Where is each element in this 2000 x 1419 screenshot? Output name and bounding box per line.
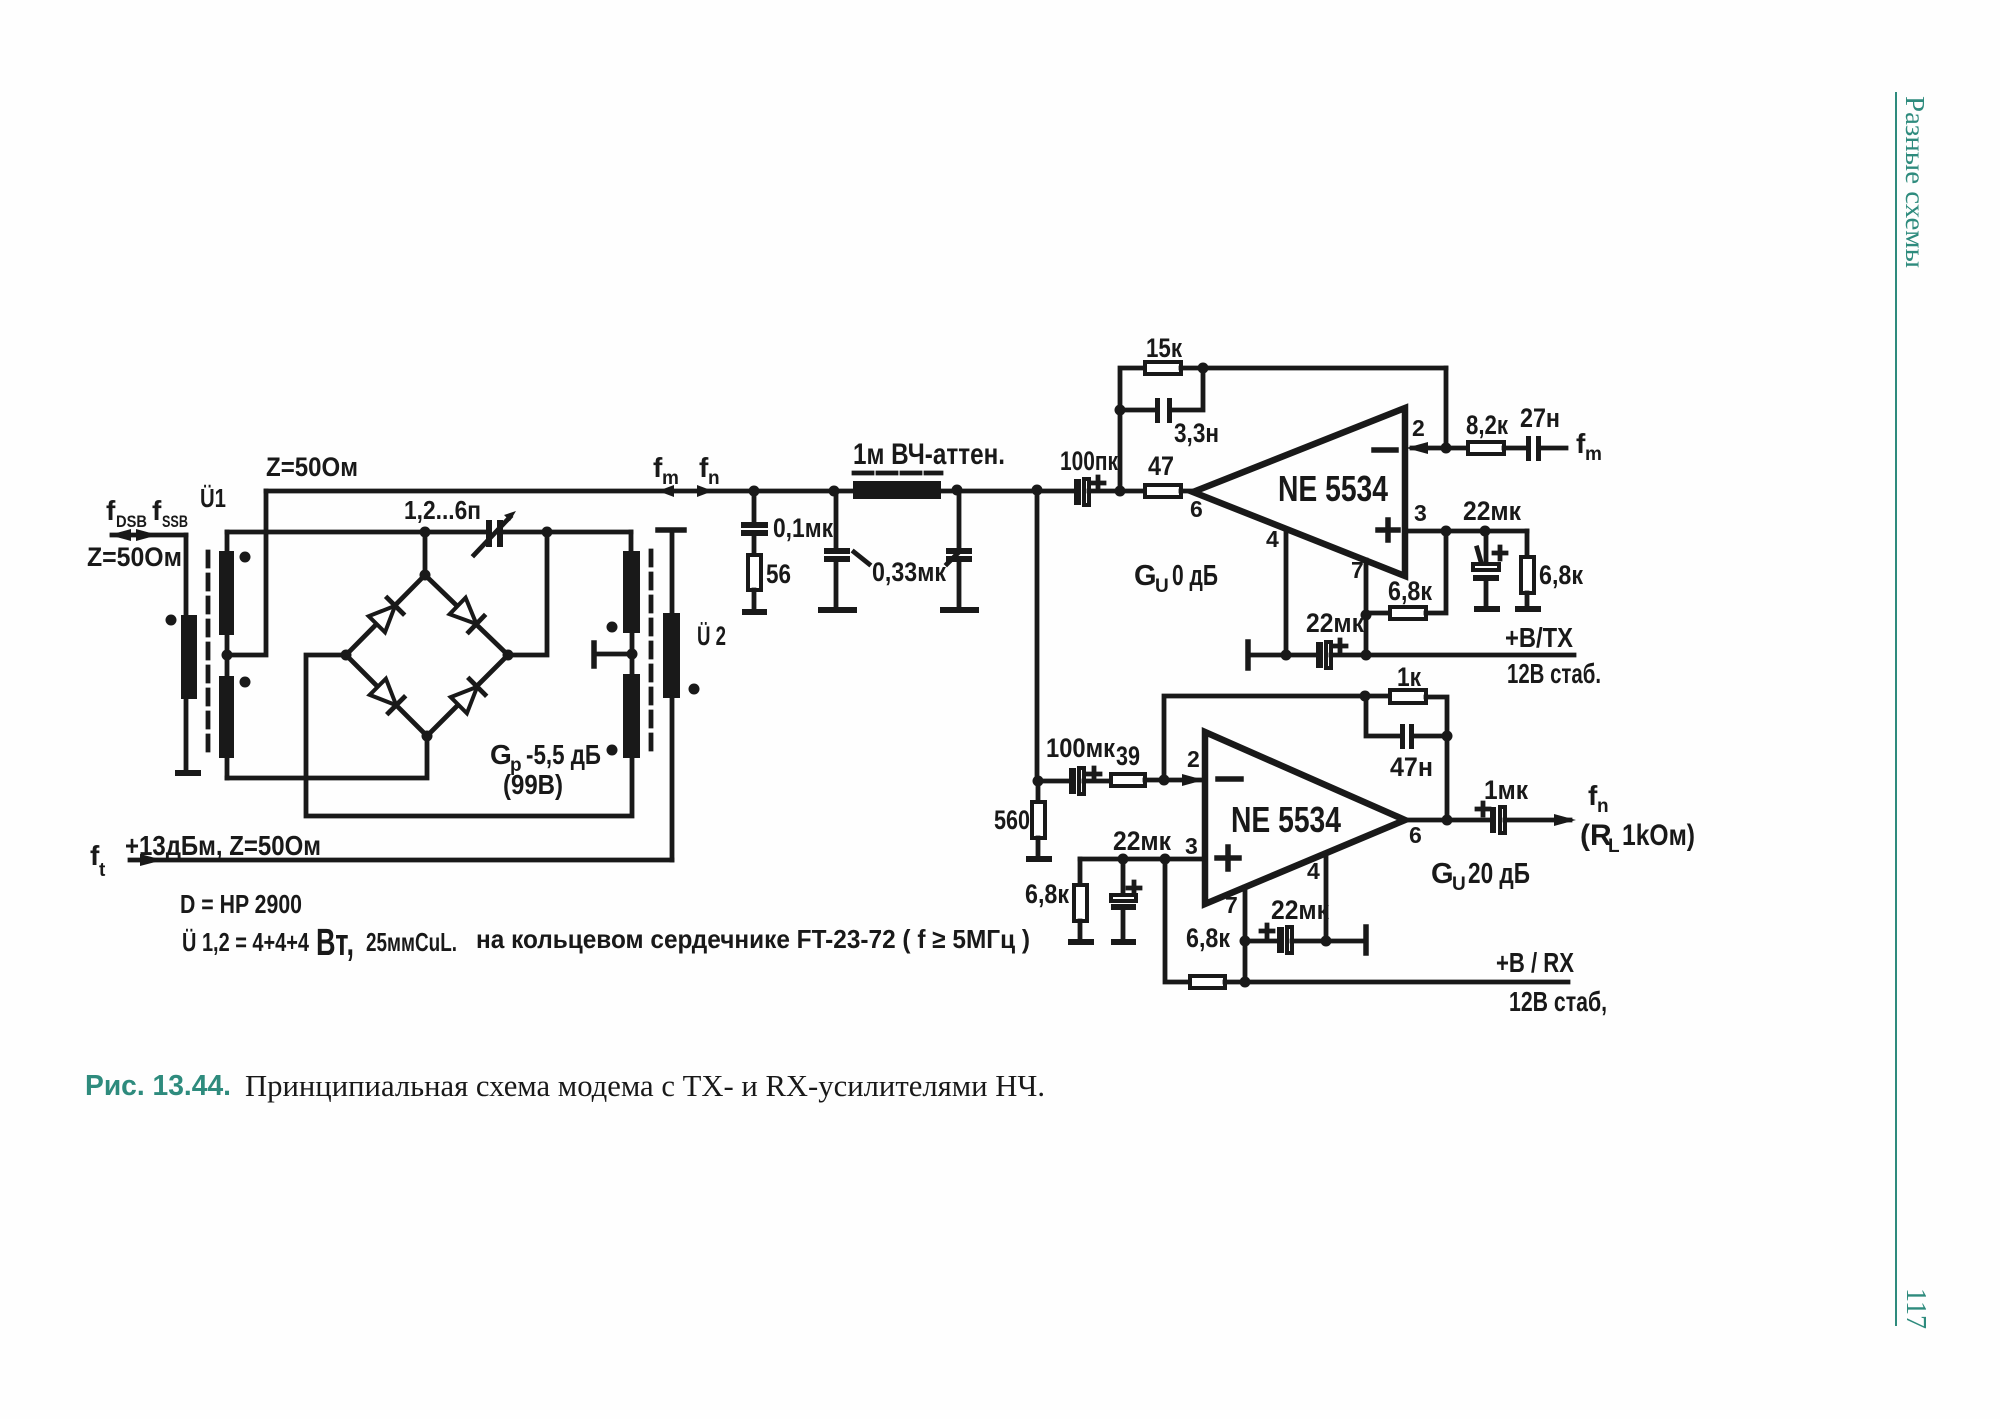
svg-text:Принципиальная схема модема с: Принципиальная схема модема с ТХ- и RХ-у…	[245, 1068, 1045, 1103]
variable capacitor 1,2...6p	[404, 495, 516, 555]
svg-text:NE 5534: NE 5534	[1278, 468, 1388, 509]
svg-text:Вт,: Вт,	[316, 922, 354, 964]
svg-text:U: U	[1452, 874, 1466, 895]
wire pin3 RX	[1080, 833, 1205, 865]
svg-text:f: f	[106, 495, 116, 526]
svg-text:SSB: SSB	[162, 512, 188, 531]
node output fn	[1405, 775, 1695, 857]
note D = HP 2900	[180, 889, 302, 919]
capacitor 0,33mk right	[940, 485, 979, 614]
node ft port	[90, 830, 672, 881]
svg-text:56: 56	[766, 559, 791, 589]
caption Fig 13.44	[85, 1068, 1045, 1103]
note U1,2 winding	[182, 922, 1030, 964]
svg-text:27н: 27н	[1520, 403, 1560, 433]
svg-text:+13дБм, Z=50Ом: +13дБм, Z=50Ом	[125, 830, 321, 861]
wire RX feedback	[1164, 691, 1390, 781]
svg-text:22мк: 22мк	[1113, 826, 1171, 856]
svg-text:Ü 2: Ü 2	[697, 621, 726, 651]
svg-text:6: 6	[1409, 822, 1422, 848]
svg-text:25ммCuL.: 25ммCuL.	[366, 927, 457, 957]
capacitor 47n	[1366, 696, 1447, 782]
svg-text:0,33мк: 0,33мк	[872, 557, 946, 587]
resistor 8,2k	[1466, 410, 1526, 454]
svg-text:3,3н: 3,3н	[1174, 418, 1219, 448]
svg-text:47н: 47н	[1390, 752, 1433, 782]
svg-text:m: m	[1585, 444, 1602, 465]
node fm/fn arrows on line	[653, 452, 720, 497]
svg-text:f: f	[152, 495, 162, 526]
svg-text:22мк: 22мк	[1306, 608, 1364, 638]
label 0,33mk with pointers	[854, 552, 959, 587]
diode ring bridge	[341, 570, 514, 742]
svg-text:Рис. 13.44.: Рис. 13.44.	[85, 1070, 231, 1102]
resistor 56	[748, 555, 791, 609]
svg-text:DSB: DSB	[116, 512, 147, 531]
wire feedback to pin2	[1444, 368, 1449, 448]
svg-text:100мк: 100мк	[1046, 733, 1115, 763]
svg-text:6: 6	[1190, 496, 1203, 522]
svg-text:U: U	[1155, 576, 1169, 597]
node fm input port	[1576, 428, 1602, 465]
svg-text:8,2к: 8,2к	[1466, 410, 1508, 440]
transformer U1	[166, 483, 267, 778]
svg-text:6,8к: 6,8к	[1186, 923, 1230, 953]
label Gp -5,5 dB (99B)	[490, 739, 601, 800]
resistor 47	[1115, 451, 1194, 497]
wire pin3 TX	[1405, 526, 1527, 537]
svg-text:-5,5 дБ: -5,5 дБ	[526, 739, 601, 770]
svg-text:2: 2	[1187, 746, 1200, 772]
wire pin7 TX	[1361, 560, 1372, 655]
svg-text:1к: 1к	[1397, 662, 1421, 692]
svg-text:0,1мк: 0,1мк	[773, 513, 833, 543]
svg-text:L: L	[1608, 836, 1620, 857]
capacitor 0,1mk	[741, 486, 833, 556]
svg-text:n: n	[1597, 796, 1609, 817]
svg-text:t: t	[99, 860, 106, 881]
capacitor 22mk RX supply	[1245, 895, 1366, 953]
resistor 6,8k pin7 feedback	[1366, 531, 1446, 619]
node main junction to RX	[1032, 485, 1043, 782]
resistor 6,8k at pin3 to ground	[1515, 531, 1583, 612]
svg-text:G: G	[490, 739, 512, 770]
label Gu 20 dB	[1431, 858, 1530, 895]
op-amp U1 NE 5534 (TX)	[1190, 408, 1427, 583]
svg-text:6,8к: 6,8к	[1388, 576, 1432, 606]
diode D2 (top-right edge)	[450, 598, 484, 632]
svg-text:Разные схемы: Разные схемы	[1900, 96, 1930, 268]
label +B/RX rail	[1496, 947, 1607, 1017]
wire port to transformer primary	[184, 535, 189, 770]
diode D4 (bottom-right edge)	[451, 679, 485, 713]
svg-text:G: G	[1431, 858, 1454, 890]
svg-text:Z=50Ом: Z=50Ом	[266, 452, 358, 482]
capacitor 0,33mk left	[818, 486, 857, 614]
svg-text:G: G	[1134, 560, 1157, 592]
sidebar header	[1900, 96, 1930, 268]
sidebar rule	[1895, 92, 1897, 1326]
op-amp U2 NE 5534 (RX)	[1205, 732, 1422, 918]
wire pin7 RX	[1240, 887, 1251, 982]
capacitor 100pk electrolytic	[1060, 446, 1145, 505]
svg-text:4: 4	[1307, 858, 1320, 884]
svg-text:12В стаб,: 12В стаб,	[1509, 986, 1607, 1017]
capacitor 22mk RX input	[1111, 826, 1171, 945]
transformer U2	[594, 530, 726, 860]
svg-text:Ü 1,2 = 4+4+4: Ü 1,2 = 4+4+4	[182, 927, 309, 957]
svg-text:1kОм): 1kОм)	[1622, 819, 1695, 852]
svg-text:n: n	[708, 468, 720, 489]
svg-text:D = HP 2900: D = HP 2900	[180, 889, 302, 919]
svg-text:Ü1: Ü1	[200, 483, 226, 513]
svg-text:100пк: 100пк	[1060, 446, 1118, 476]
svg-text:m: m	[662, 468, 679, 489]
svg-text:6,8к: 6,8к	[1025, 879, 1069, 909]
svg-text:+B / RX: +B / RX	[1496, 947, 1574, 978]
resistor 6,8k RX input to ground	[1025, 859, 1094, 945]
svg-text:4: 4	[1266, 526, 1279, 552]
resistor 6,8k RX rail	[1165, 859, 1568, 988]
svg-text:1мк: 1мк	[1484, 775, 1528, 805]
capacitor 3,3n feedback	[1120, 368, 1219, 448]
ground bar under 56	[742, 609, 767, 615]
svg-text:560: 560	[994, 805, 1030, 835]
svg-text:15к: 15к	[1146, 333, 1182, 363]
node top line junctions	[420, 527, 553, 656]
resistor 1k	[1390, 662, 1453, 820]
resistor 15k feedback	[1115, 333, 1447, 491]
svg-text:0 дБ: 0 дБ	[1172, 560, 1218, 592]
svg-text:12В стаб.: 12В стаб.	[1507, 658, 1601, 689]
svg-text:Z=50Ом: Z=50Ом	[87, 542, 182, 572]
wire carrier line y532	[227, 530, 631, 535]
svg-text:NE 5534: NE 5534	[1231, 799, 1341, 840]
attenuator 1m VCh-atten	[853, 438, 1005, 499]
node pin2 TX with arrow	[1406, 415, 1468, 454]
capacitor 22mk at pin3	[1463, 496, 1521, 612]
svg-text:+B/TX: +B/TX	[1505, 622, 1573, 653]
svg-text:3: 3	[1414, 500, 1427, 526]
svg-text:2: 2	[1412, 415, 1425, 441]
capacitor 27n	[1520, 403, 1566, 461]
wire pin4 RX	[1321, 853, 1332, 947]
svg-text:22мк: 22мк	[1463, 496, 1521, 526]
node fDSB/fSSB port	[87, 495, 188, 572]
svg-text:1м ВЧ-аттен.: 1м ВЧ-аттен.	[853, 438, 1005, 471]
resistor 39	[1111, 741, 1204, 786]
wire Z=50Ом line to fm (top)	[266, 452, 1076, 491]
svg-text:на кольцевом сердечнике FT-23-: на кольцевом сердечнике FT-23-72 ( f ≥ 5…	[476, 924, 1030, 954]
capacitor 100mk RX input	[1033, 733, 1116, 794]
svg-text:7: 7	[1351, 557, 1364, 583]
sidebar page number 117	[1900, 1288, 1932, 1329]
diode D1 (left-top edge)	[369, 598, 403, 632]
svg-text:1,2...6п: 1,2...6п	[404, 495, 481, 525]
svg-text:20 дБ: 20 дБ	[1468, 858, 1530, 890]
svg-text:6,8к: 6,8к	[1539, 560, 1583, 590]
label Gu 0 dB	[1134, 560, 1218, 597]
svg-text:3: 3	[1185, 833, 1198, 859]
wire left vertex to U2 bottom	[306, 655, 632, 816]
svg-text:(99В): (99В)	[503, 769, 563, 800]
svg-text:39: 39	[1116, 741, 1140, 771]
svg-text:7: 7	[1225, 892, 1238, 918]
ground bar under Ü1 primary	[175, 770, 201, 776]
diode D3 (left-bottom edge)	[370, 679, 404, 713]
resistor 560 to ground	[994, 781, 1052, 862]
wire pin4 TX	[1284, 529, 1289, 655]
svg-text:47: 47	[1148, 451, 1174, 481]
svg-text:22мк: 22мк	[1271, 895, 1329, 925]
svg-text:117: 117	[1900, 1288, 1932, 1329]
power rail +B/TX	[1248, 608, 1601, 689]
wire bottom vertex to U1 bottom	[227, 736, 427, 778]
